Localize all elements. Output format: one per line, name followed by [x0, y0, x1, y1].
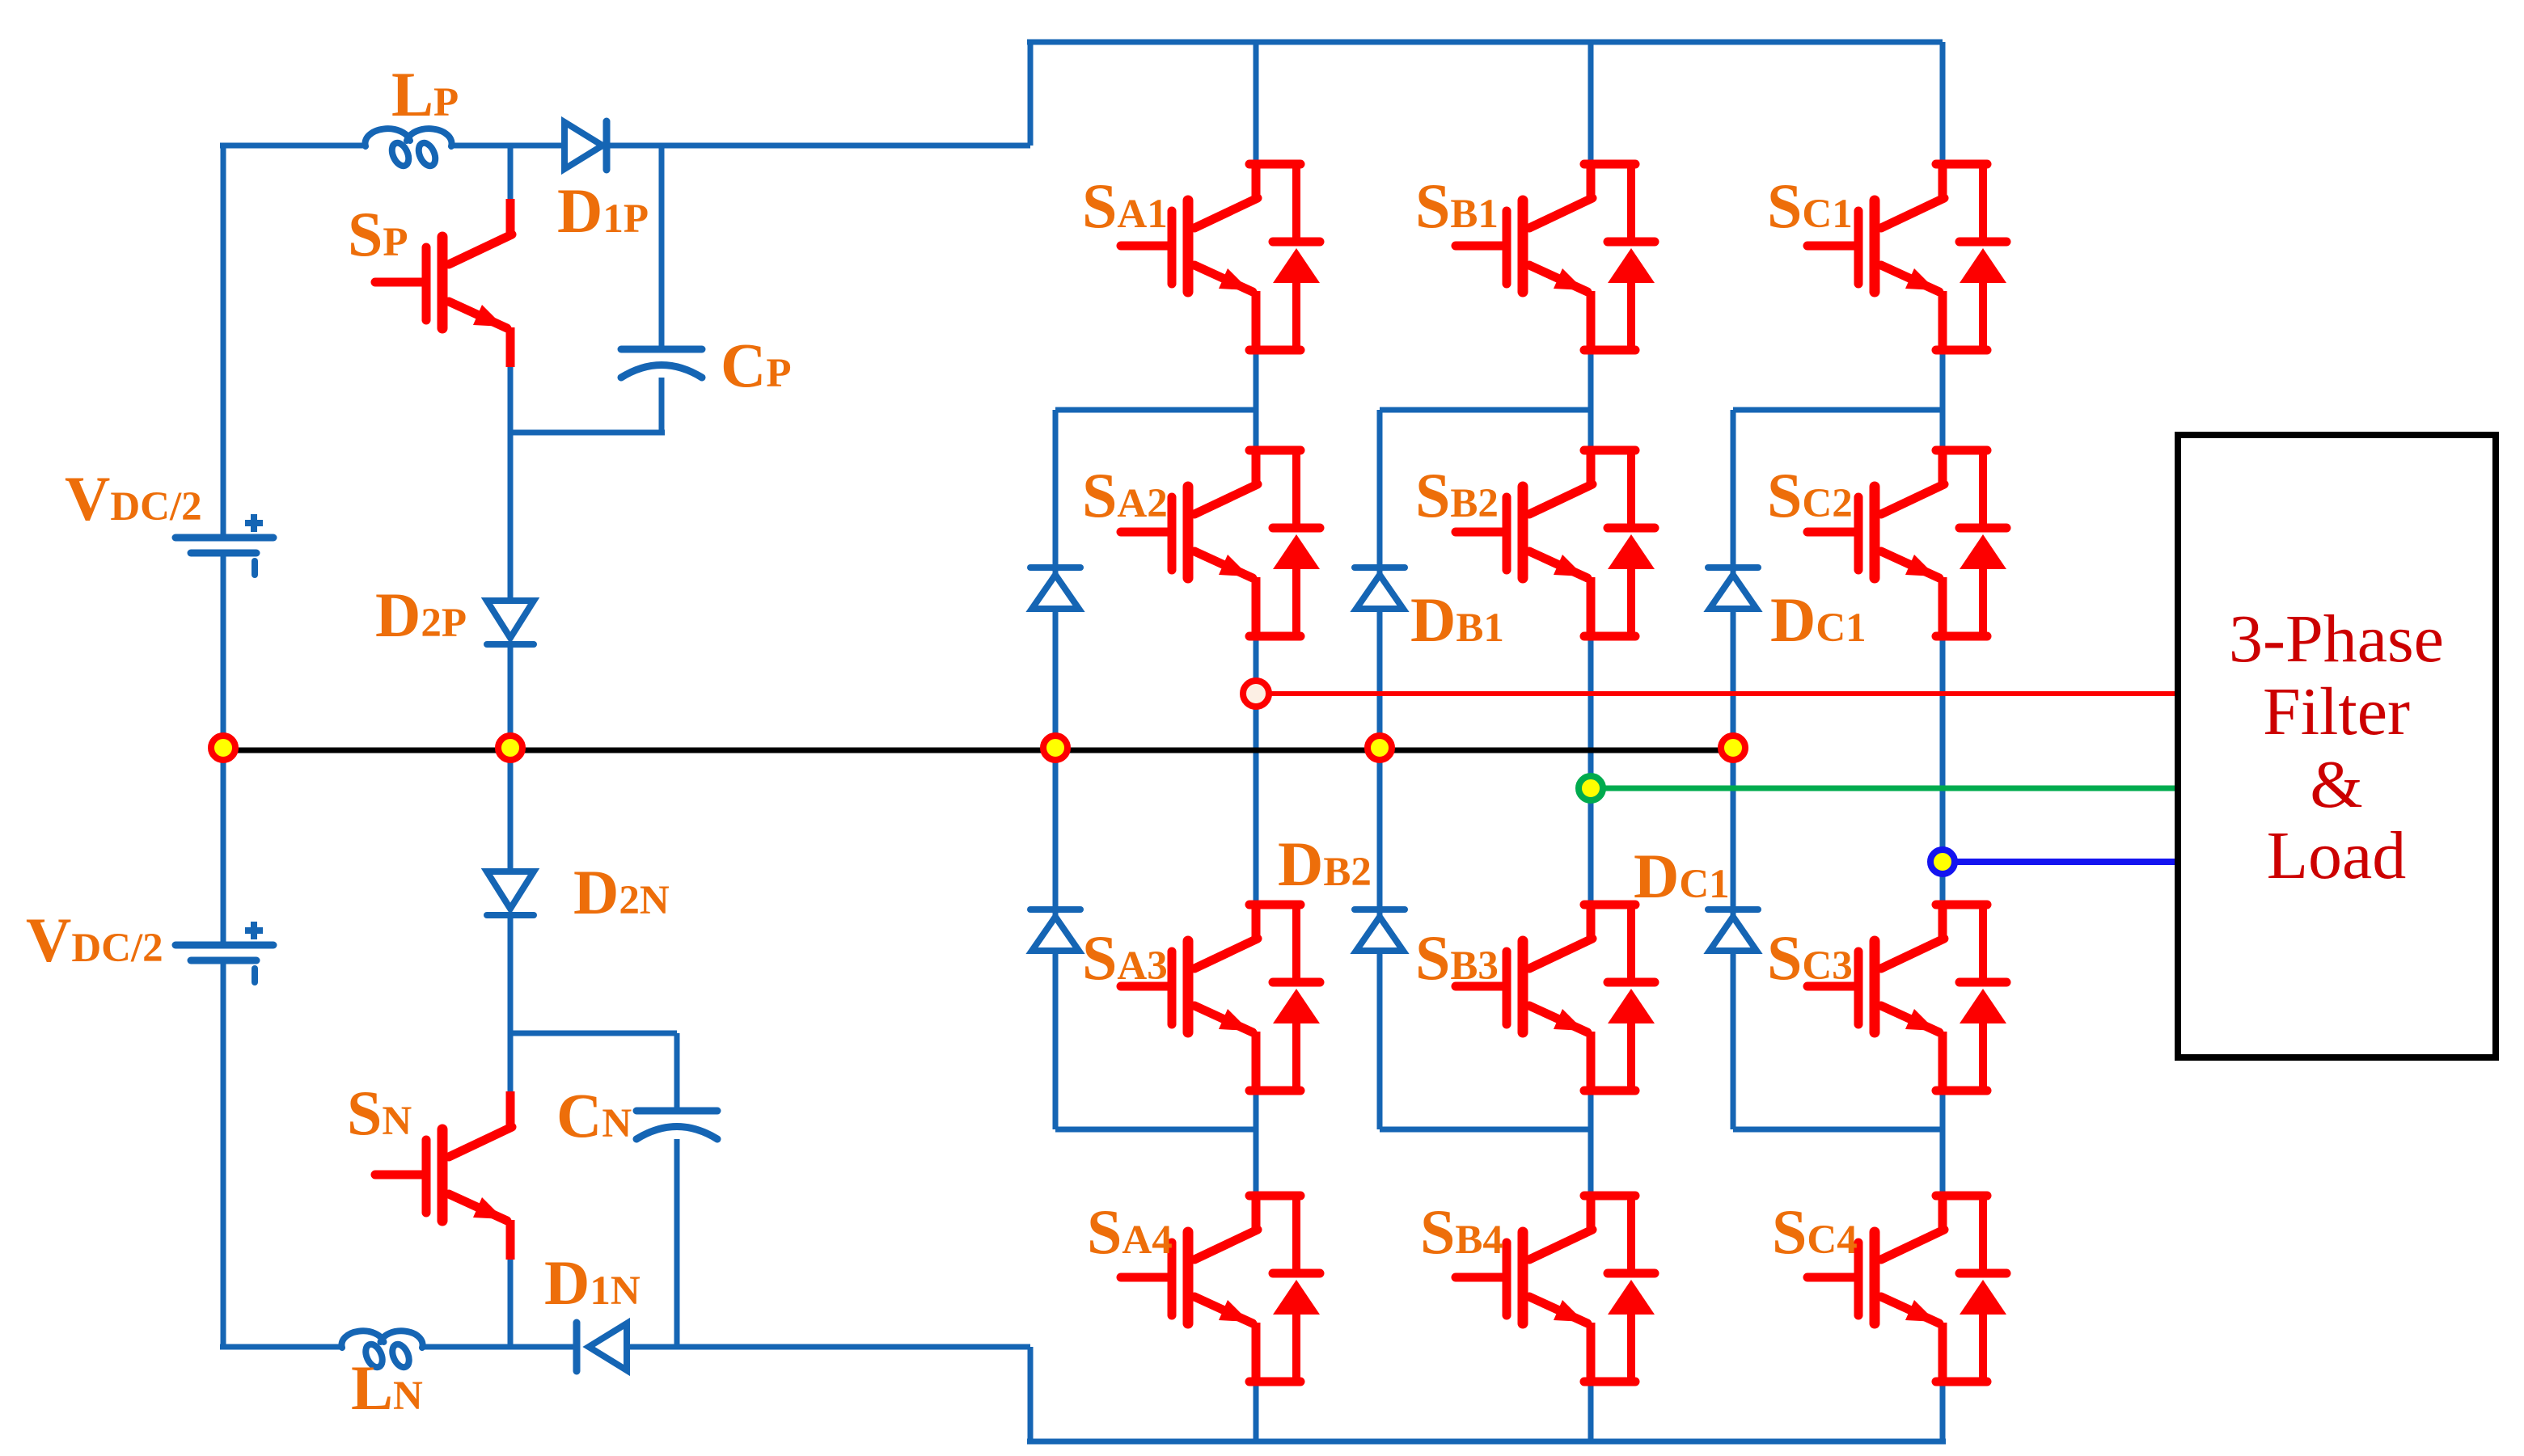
- switch SA1 (IGBT with diode): [1121, 164, 1320, 352]
- clamp diode upper leg B: [1355, 568, 1405, 609]
- wire: neutral midpoint bus (black): [223, 748, 1733, 753]
- battery VDC/2 lower: [175, 922, 273, 982]
- svg-text:Load: Load: [2267, 818, 2407, 893]
- switch SC2 (IGBT with diode): [1807, 450, 2006, 638]
- switch SB4 (IGBT with diode): [1456, 1196, 1655, 1383]
- switch SB1 (IGBT with diode): [1456, 164, 1655, 352]
- wire: clamp branch C with stubs: [1733, 410, 1943, 1129]
- diode D2N: [487, 871, 534, 915]
- switch SA2 (IGBT with diode): [1121, 450, 1320, 638]
- wire: phase A output (red): [1256, 691, 2178, 696]
- switch SA4 (IGBT with diode): [1121, 1196, 1320, 1383]
- node: neutral junction at clamp A: [1043, 736, 1068, 760]
- wire: top bus riser and horizontal bus: [1027, 42, 1943, 146]
- node: phase B terminal: [1579, 776, 1603, 800]
- wire: CP snubber branch: [510, 146, 665, 433]
- switch SB2 (IGBT with diode): [1456, 450, 1655, 638]
- inductor LN: [341, 1331, 422, 1369]
- clamp diode upper leg A: [1030, 568, 1080, 609]
- diode D1P: [564, 121, 607, 170]
- node: phase A terminal: [1243, 681, 1269, 707]
- switch SA3 (IGBT with diode): [1121, 905, 1320, 1092]
- wire: phase B output (green): [1591, 786, 2178, 791]
- node: neutral junction at clamp C: [1721, 736, 1745, 760]
- battery VDC/2 upper: [175, 514, 273, 575]
- wire: clamp branch A with stubs: [1055, 410, 1256, 1129]
- IGBT SN: [375, 1091, 512, 1260]
- label: load text: [2229, 601, 2444, 893]
- switch SC1 (IGBT with diode): [1807, 164, 2006, 352]
- clamp diode lower leg B: [1355, 909, 1405, 951]
- clamp diode lower leg C: [1708, 909, 1758, 951]
- wire: left DC rail vertical: [221, 146, 226, 1347]
- node: phase C terminal: [1930, 850, 1955, 874]
- IGBT SP: [375, 199, 512, 367]
- clamp diode lower leg A: [1030, 909, 1080, 951]
- wire: top rail from DC+ through LP and D1P: [220, 143, 1030, 149]
- switch SC3 (IGBT with diode): [1807, 905, 2006, 1092]
- wire: leg B vertical segments: [1588, 42, 1594, 1441]
- clamp diode upper leg C: [1708, 568, 1758, 609]
- svg-text:&: &: [2310, 747, 2362, 822]
- inductor LP: [365, 129, 451, 168]
- node: neutral junction at clamp B: [1368, 736, 1392, 760]
- capacitor CN: [636, 1111, 717, 1139]
- switch SB3 (IGBT with diode): [1456, 905, 1655, 1092]
- node: neutral junction at D2 branch: [498, 736, 522, 760]
- diode D1N: [577, 1323, 627, 1371]
- svg-text:3-Phase: 3-Phase: [2229, 601, 2444, 677]
- wire: bottom rail through LN and D1N: [220, 1344, 1030, 1350]
- wire: SP branch vertical: [508, 146, 514, 1347]
- capacitor CP: [621, 349, 702, 378]
- wire: leg C vertical segments: [1940, 42, 1946, 1441]
- switch SC4 (IGBT with diode): [1807, 1196, 2006, 1383]
- wire: phase C output (blue): [1943, 859, 2178, 865]
- wire: bottom bus riser and horizontal bus: [1027, 1347, 1946, 1441]
- wire: clamp branch B with stubs: [1380, 410, 1591, 1129]
- load box: 3-Phase Filter & Load: [2178, 435, 2496, 1057]
- node: neutral junction at DC rail: [211, 736, 235, 760]
- wire: leg A vertical segments: [1254, 42, 1259, 1441]
- svg-text:Filter: Filter: [2263, 674, 2410, 749]
- diode D2P: [487, 601, 534, 644]
- wire: CN branch: [510, 1033, 677, 1347]
